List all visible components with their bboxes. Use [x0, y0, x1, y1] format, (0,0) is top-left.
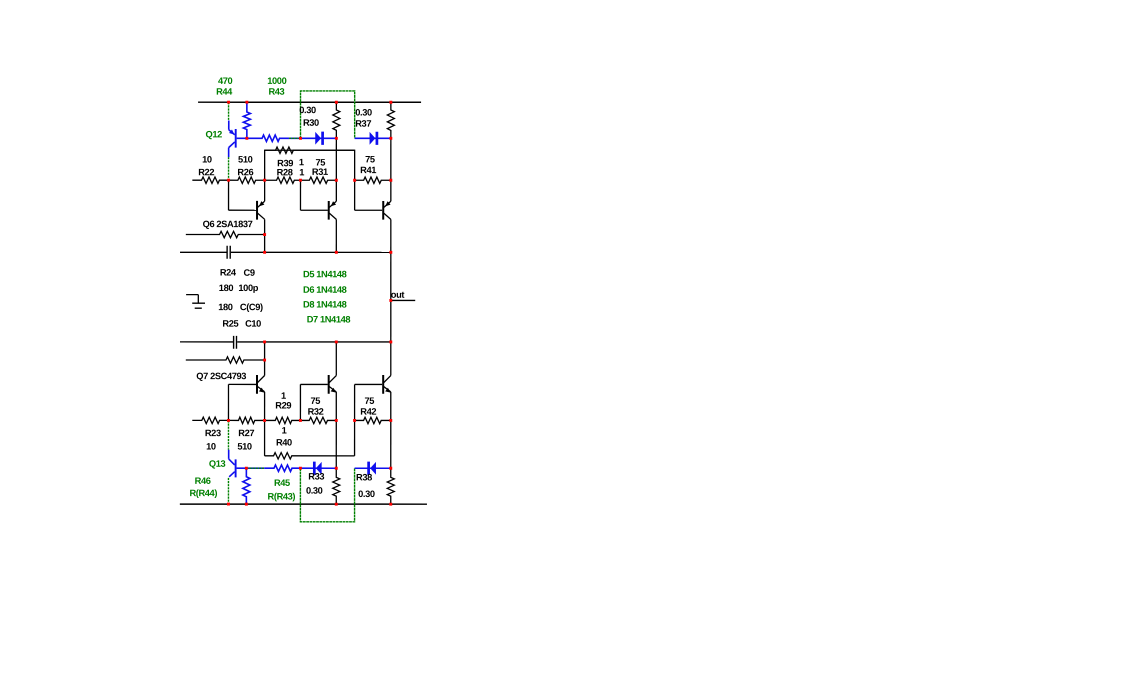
svg-text:Q6 2SA1837: Q6 2SA1837 — [203, 219, 253, 229]
ground symbol — [186, 294, 198, 296]
svg-text:D6 1N4148: D6 1N4148 — [303, 285, 347, 295]
resistor R45 blue — [264, 465, 300, 471]
svg-text:1: 1 — [281, 391, 286, 401]
svg-text:D7 1N4148: D7 1N4148 — [307, 314, 351, 324]
junction lower output row / right collector — [389, 341, 392, 344]
junction D5 cathode / R30 — [335, 137, 338, 140]
junction R31 / upper-middle emitter — [335, 179, 338, 182]
svg-text:R(R43): R(R43) — [268, 492, 296, 502]
svg-text:10: 10 — [202, 155, 212, 165]
wire lower-left base down to R23 node — [227, 384, 229, 420]
svg-text:C9: C9 — [244, 268, 255, 278]
resistor R40 1 — [265, 453, 355, 459]
svg-text:100p: 100p — [238, 283, 258, 293]
resistor R23 10 — [192, 417, 228, 423]
resistor R32 75 — [300, 417, 336, 423]
wire lower-right emitter down to R42 node — [390, 392, 392, 421]
junction top rail / R44 — [245, 101, 248, 104]
junction C10 / lower-left collector — [263, 340, 266, 343]
transistor PNP output upper-left — [256, 201, 258, 220]
svg-text:R41: R41 — [360, 165, 376, 175]
junction R29 / R32 / lower-middle base — [299, 419, 302, 422]
junction bottom rail / Q13 emitter — [227, 503, 230, 506]
resistor R33 0.30 vertical — [333, 468, 340, 504]
wire Q12 emitter lead — [228, 121, 230, 130]
svg-text:R42: R42 — [360, 407, 376, 417]
wire R32 node down to R33 — [335, 420, 337, 468]
resistor R37 0.30 vertical — [387, 102, 394, 138]
svg-text:R46: R46 — [195, 476, 211, 486]
wire lower-right collector up to node out — [390, 342, 392, 376]
wire R43 to diode node blue under highlight — [289, 137, 300, 139]
wire base upper-right transistor — [355, 209, 383, 211]
Q12 emitter arrow — [229, 129, 234, 134]
wire lower-middle collector up to output row — [335, 342, 337, 376]
svg-text:D8 1N4148: D8 1N4148 — [303, 300, 347, 310]
wire C10 to output column — [237, 341, 391, 343]
transistor PNP output upper-middle — [328, 201, 330, 220]
wire C9 to output column — [231, 251, 391, 253]
wire upper-left emitter to R26/R28 node — [264, 180, 266, 201]
wire green highlighted net Q12 collector to R22 node — [228, 157, 230, 180]
junction R45 / D8 cathode / highlight box — [299, 467, 302, 470]
svg-text:10: 10 — [206, 442, 216, 452]
wire green highlighted segment R43 to diode node — [289, 137, 300, 139]
wire base lower-left transistor — [228, 383, 256, 385]
svg-text:C(C9): C(C9) — [240, 302, 263, 312]
capacitor C10 plates — [233, 336, 235, 349]
wire upper-right collector down through node out — [390, 219, 392, 342]
resistor R41 75 — [355, 177, 391, 183]
svg-text:R33: R33 — [308, 472, 324, 482]
junction bottom rail / R33 — [335, 503, 338, 506]
svg-text:R43: R43 — [268, 87, 284, 97]
svg-text:Q13: Q13 — [209, 459, 226, 469]
svg-text:75: 75 — [365, 154, 375, 164]
junction top rail / R37 — [389, 101, 392, 104]
resistor R22 10 — [192, 177, 228, 183]
svg-text:R22: R22 — [198, 167, 214, 177]
junction R23 / R27 / lower-left base — [227, 419, 230, 422]
junction R41 / upper-right base — [353, 179, 356, 182]
wire green highlighted segment Q13 base to R45 — [246, 467, 264, 469]
resistor R30 0.30 vertical — [333, 102, 340, 138]
junction lower output row / middle collector — [335, 340, 338, 343]
svg-text:R32: R32 — [308, 407, 324, 417]
junction node out — [389, 299, 392, 302]
junction R26 / R28 / R39 / upper-left emitter — [263, 179, 266, 182]
transistor NPN output lower-left — [256, 375, 258, 394]
transistor Q13 base bar — [235, 459, 237, 477]
wire lower-left emitter down to R27 node — [264, 392, 266, 421]
wire green highlighted net Q13 emitter to rail — [227, 478, 229, 504]
wire top supply rail — [198, 101, 421, 103]
resistor R31 75 — [300, 177, 336, 183]
svg-text:0.30: 0.30 — [358, 489, 375, 499]
junction upper output row / right collector — [389, 251, 392, 254]
svg-text:Q12: Q12 — [206, 129, 223, 139]
wire R30 node down to R31 node — [335, 138, 337, 180]
resistor Q7 base stopper 2SC4793 row — [186, 357, 265, 363]
wire R28/R31 node down to upper-middle base — [299, 180, 301, 210]
wire base lower-middle transistor — [300, 383, 327, 385]
resistor R26 510 — [229, 177, 265, 183]
svg-text:R44: R44 — [216, 87, 233, 97]
resistor R46 blue vertical — [243, 468, 250, 504]
junction top rail / R30 — [335, 101, 338, 104]
diode D7 1N4148 blue — [355, 467, 391, 469]
svg-text:R27: R27 — [238, 428, 254, 438]
junction top rail / R22 net — [227, 101, 230, 104]
junction C9 / upper-left collector — [263, 251, 266, 254]
svg-text:R40: R40 — [276, 438, 292, 448]
wire base lower-right transistor — [355, 383, 383, 385]
wire lower-right base down to R40 wire — [354, 384, 356, 455]
junction R41 / upper-right emitter — [389, 179, 392, 182]
junction bottom rail / R46 — [245, 503, 248, 506]
junction Q6 resistor / collector column — [263, 233, 266, 236]
resistor R43 1000 blue with Q12 base wire — [237, 135, 289, 141]
wire lower-middle base down to R29/R32 node — [299, 384, 301, 420]
junction Q13 base / R46 / R45 — [245, 467, 248, 470]
junction upper output row / middle collector — [335, 251, 338, 254]
svg-text:R24: R24 — [220, 268, 237, 278]
svg-text:510: 510 — [238, 155, 253, 165]
wire R40 branch left — [264, 420, 266, 455]
resistor R44 470 vertical blue — [243, 102, 250, 138]
wire Q12 emitter diagonal — [229, 130, 235, 135]
wire green highlighted loop under bottom diodes — [300, 468, 354, 522]
resistor R27 510 — [228, 417, 264, 423]
wire base upper-left transistor — [229, 209, 257, 211]
junction R28 / R31 / upper-middle base — [299, 179, 302, 182]
wire Q12 collector lead — [228, 148, 230, 158]
svg-text:1: 1 — [299, 157, 304, 167]
junction R42 / lower-right base — [353, 419, 356, 422]
wire R39 branch loop — [265, 150, 355, 210]
wire into C9 — [180, 251, 227, 253]
svg-text:out: out — [391, 290, 405, 300]
capacitor C9 plates — [226, 246, 228, 259]
junction Q12 base / R44 / R43 — [245, 137, 248, 140]
wire green highlighted net from rail to Q12 emitter — [228, 102, 230, 120]
wire upper-right emitter to R41 node — [390, 180, 392, 201]
junction R32 / lower-middle emitter — [335, 419, 338, 422]
svg-text:C10: C10 — [245, 319, 261, 329]
svg-text:510: 510 — [237, 442, 252, 452]
wire green highlighted loop over top diodes — [301, 91, 355, 138]
wire R37 node down to R41 node — [390, 138, 392, 180]
junction bottom rail / R38 — [389, 503, 392, 506]
junction R43 / D5 anode / highlight box — [299, 137, 302, 140]
wire Q13 collector diagonal — [229, 459, 235, 465]
svg-text:R31: R31 — [312, 167, 328, 177]
svg-text:R(R44): R(R44) — [189, 488, 217, 498]
svg-text:75: 75 — [310, 396, 320, 406]
svg-text:R45: R45 — [274, 478, 290, 488]
wire into C10 — [180, 341, 233, 343]
svg-text:0.30: 0.30 — [306, 486, 323, 496]
wire lower-middle emitter down to R32 node — [335, 392, 337, 421]
transistor Q12 base bar — [235, 129, 237, 148]
svg-text:D5 1N4148: D5 1N4148 — [303, 269, 347, 279]
wire bottom supply rail — [180, 503, 427, 505]
svg-text:R38: R38 — [356, 472, 372, 482]
wire upper-middle emitter to R31 node — [335, 180, 337, 201]
svg-text:180: 180 — [218, 302, 233, 312]
svg-text:0.30: 0.30 — [355, 108, 372, 118]
resistor R29 1 — [265, 417, 301, 423]
svg-text:R30: R30 — [303, 118, 319, 128]
svg-text:R29: R29 — [275, 401, 291, 411]
svg-text:1: 1 — [299, 167, 304, 177]
wire base upper-middle transistor — [300, 209, 327, 211]
wire green highlighted net R23 node to Q13 — [227, 420, 229, 449]
diode D8 1N4148 blue — [300, 467, 336, 469]
wire Q13 collector lead — [228, 450, 230, 459]
svg-text:R23: R23 — [205, 428, 221, 438]
diode D5 1N4148 blue — [301, 137, 337, 139]
resistor R42 75 — [355, 417, 391, 423]
svg-text:0.30: 0.30 — [299, 105, 316, 115]
diode D6 1N4148 blue — [355, 137, 391, 139]
wire Q13 base to R46 node — [237, 467, 247, 469]
svg-text:R28: R28 — [277, 167, 293, 177]
wire out stub — [391, 299, 415, 301]
svg-text:1: 1 — [282, 426, 287, 436]
svg-text:R37: R37 — [355, 119, 371, 129]
wire R22 node down to upper-left base — [228, 180, 230, 210]
svg-text:470: 470 — [218, 76, 233, 86]
svg-text:R26: R26 — [237, 167, 253, 177]
transistor PNP output upper-right — [382, 201, 384, 220]
wire Q13 base to R45 blue under highlight — [246, 467, 264, 469]
junction D7 anode / R38 — [389, 467, 392, 470]
wire lower-left collector up to output row — [264, 342, 266, 376]
svg-text:1000: 1000 — [267, 76, 286, 86]
resistor R28 1 — [265, 177, 301, 183]
wire upper-middle collector down to output row — [335, 219, 337, 252]
junction D8 anode / R33 — [335, 467, 338, 470]
transistor NPN output lower-middle — [328, 375, 330, 394]
wire Q12 collector diagonal — [229, 142, 235, 148]
junction D6 cathode / R37 — [389, 137, 392, 140]
svg-text:Q7 2SC4793: Q7 2SC4793 — [196, 371, 246, 381]
wire upper-left collector down to output row — [264, 219, 266, 252]
transistor NPN output lower-right — [382, 375, 384, 394]
junction R22 / R26 / upper-left base — [227, 179, 230, 182]
svg-text:R25: R25 — [222, 319, 238, 329]
wire R42 node down to R38 — [390, 420, 392, 468]
resistor Q6 base stopper 2SA1837 row — [186, 231, 265, 237]
svg-text:75: 75 — [364, 396, 374, 406]
junction Q7 resistor / collector column — [263, 359, 266, 362]
wire Q13 emitter diagonal — [229, 472, 235, 477]
junction R42 / lower-right emitter — [389, 419, 392, 422]
resistor R38 0.30 vertical — [387, 468, 394, 504]
svg-text:180: 180 — [219, 283, 234, 293]
resistor R39 1 — [265, 147, 355, 153]
junction R27 / R29 / R40 / lower-left emitter — [263, 419, 266, 422]
